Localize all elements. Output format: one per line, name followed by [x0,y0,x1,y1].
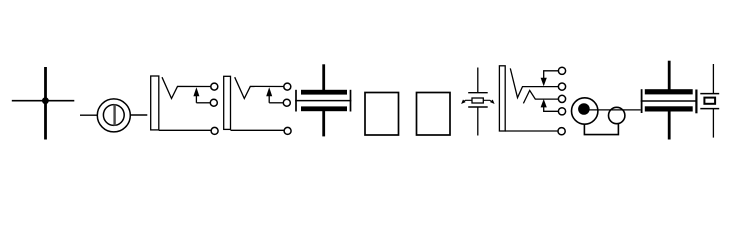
left end bar [641,89,643,113]
top plate [700,93,719,95]
top plate [468,92,488,94]
top plate [301,90,347,95]
connector P2: DC power plug [572,98,641,135]
outer ring circle [572,98,598,124]
jack J3: stereo phone jack with switches [499,66,565,135]
wire bottom lead [668,111,671,140]
terminal sleeve circle [284,127,291,134]
jack J2: mono phone jack with switch [224,76,291,134]
inner tip circle [103,105,124,126]
bottom plate [700,108,719,110]
center pin dot [578,103,590,115]
top plate [645,89,693,94]
center insulator bar [113,104,115,125]
terminal tip circle [211,83,218,90]
wire top lead [477,68,479,93]
crystal Y1: adjustable crystal/trimmer [461,68,495,136]
crystal body rect [704,98,715,104]
terminal 2 circle [558,83,565,90]
right end bar [695,90,697,114]
ring spring contact [523,90,558,103]
wire center pin lead [586,109,641,111]
terminal switch circle [283,99,290,106]
wire right lead [130,114,147,116]
box U2: empty component box [417,93,451,136]
wire left lead [80,114,97,116]
feedthrough conductor [295,100,351,102]
wire sleeve [231,129,285,131]
left end bar [295,90,297,112]
wire top lead [668,61,671,90]
jack bushing rectangle [499,66,505,131]
capacitor C1: feedthrough capacitor [295,64,351,136]
wire top lead [712,64,714,94]
connector P1: phono plug (double circle) [80,99,147,132]
wire sleeve [505,130,558,132]
jack bushing rectangle [224,76,231,129]
wire vertical [44,67,47,140]
capacitor C2: feedthrough capacitor [641,61,698,140]
junction dot [42,97,49,104]
tip spring contact [162,77,211,98]
terminal sleeve circle [211,127,218,134]
right end bar [350,90,352,112]
bottom plate [301,106,347,111]
jack J1: mono phone jack with switch [151,76,218,134]
terminal tip circle [284,83,291,90]
box U1: empty component box [365,93,399,136]
terminal 1 circle [558,67,565,74]
bottom plate [645,106,693,111]
wire sleeve [159,129,211,131]
jack bushing rectangle [151,76,159,130]
adjust arrow left [463,100,472,102]
sleeve circle [609,107,625,123]
wire bottom lead [477,107,479,136]
crystal body rect [472,98,483,103]
wire to switch terminal [269,102,283,104]
switch wire with up arrow [544,107,559,112]
wire bottom lead [322,111,325,137]
tip spring contact [235,77,284,98]
feedthrough conductor [641,100,698,102]
wire to switch terminal [196,102,210,104]
terminal 4 circle [558,108,565,115]
outer barrel circle [97,99,130,132]
switch arrow up [193,87,199,96]
bottom plate [468,106,488,108]
wire bottom lead [712,109,714,138]
wire horizontal [12,100,75,102]
tip spring contact [510,68,558,97]
terminal 3 circle [558,95,565,102]
terminal sleeve circle [558,128,565,135]
node A: wire junction cross [12,67,75,140]
wire top lead [322,64,325,90]
adjust arrow right [483,100,492,102]
crystal Y2 [700,64,719,138]
wire bottom bracket [584,124,618,135]
terminal switch circle [210,99,217,106]
switch arrow up [266,87,272,96]
switch wire with down arrow [544,71,559,79]
